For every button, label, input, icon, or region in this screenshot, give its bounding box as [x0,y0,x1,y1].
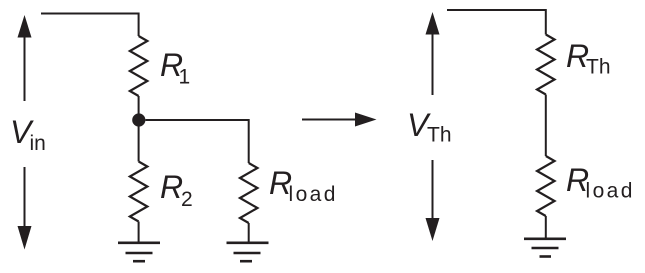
svg-text:Th: Th [586,56,611,79]
resistor R2 [130,162,148,222]
wire: top wire from VTh to RTh [447,10,546,35]
label Rload (right) [566,162,635,203]
label R1 [160,47,190,89]
label R2 [160,169,193,211]
annotation arrow Vin up [18,15,32,101]
svg-text:load: load [586,180,635,203]
svg-text:R: R [160,169,183,205]
label VTh [407,107,452,147]
resistor Rload (right) [537,156,555,216]
resistor Rload (left) [240,163,258,223]
resistor RTh [537,35,555,95]
node A (divider output junction) [132,113,145,126]
svg-text:Th: Th [427,124,452,147]
wire: node A to Rload [145,120,248,163]
ground below R2 [118,243,160,261]
ground below Rload (left) [227,243,269,261]
label RTh [566,38,611,79]
wire: node A to R2 [138,120,140,162]
annotation arrow VTh down [426,160,440,241]
svg-text:2: 2 [181,188,193,211]
annotation arrow VTh up [426,12,440,95]
wire: R1 to node A [138,96,140,120]
svg-text:1: 1 [179,66,191,89]
wire: R2 to ground [138,222,140,243]
wire: top wire from Vin to R1 [41,14,139,37]
annotation arrow Vin down [18,167,32,250]
label Vin [10,114,46,155]
resistor R1 [130,36,148,96]
ground below Rload (right) [524,239,566,257]
wire: Rload to ground (left) [248,223,250,242]
transformation arrow [302,113,377,127]
wire: RTh to Rload (right) [545,95,547,157]
label Rload (left) [269,165,338,206]
svg-text:in: in [30,132,46,155]
svg-text:load: load [289,183,338,206]
wire: Rload to ground (right) [545,216,547,238]
